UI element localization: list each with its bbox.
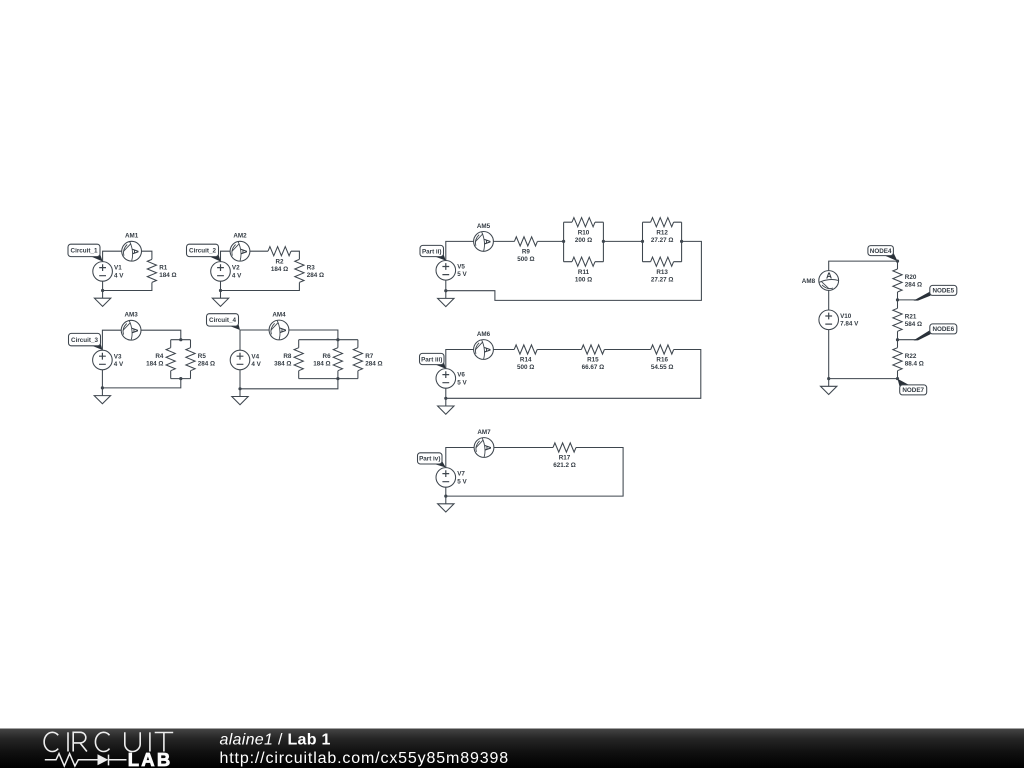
wire R3 bottom to V2 <box>221 283 300 291</box>
svg-text:7.84 V: 7.84 V <box>840 321 859 328</box>
resistor R11 <box>572 257 595 283</box>
svg-text:66.67 Ω: 66.67 Ω <box>582 364 605 371</box>
voltage source V10 <box>819 310 859 330</box>
junction <box>179 377 182 380</box>
svg-text:284 Ω: 284 Ω <box>365 360 382 367</box>
svg-text:R3: R3 <box>307 265 316 272</box>
svg-text:R22: R22 <box>905 353 917 360</box>
resistor R6 <box>313 348 342 371</box>
node NODE4 <box>896 260 899 263</box>
resistor R12 <box>651 218 674 244</box>
junction <box>602 240 605 243</box>
svg-text:R8: R8 <box>283 353 292 360</box>
wire R11 leads <box>564 261 604 263</box>
svg-text:184 Ω: 184 Ω <box>271 266 288 273</box>
node NODE6 <box>896 338 899 341</box>
resistor R17 <box>553 443 576 469</box>
svg-text:AM1: AM1 <box>125 233 139 240</box>
wire block2 side edges <box>643 222 682 262</box>
svg-text:R10: R10 <box>578 229 590 236</box>
wire R15 to R16 <box>604 349 650 351</box>
svg-text:Circuit_2: Circuit_2 <box>189 248 216 255</box>
svg-text:R16: R16 <box>656 357 668 364</box>
svg-text:5 V: 5 V <box>457 271 467 278</box>
node NODE7 <box>896 377 899 380</box>
svg-text:R20: R20 <box>905 274 917 281</box>
wire AM4 to parallel block <box>289 330 338 340</box>
svg-text:5 V: 5 V <box>457 478 467 485</box>
wire parallel top bar <box>171 339 191 341</box>
ammeter AM3 <box>121 312 141 340</box>
wire R21 to R22 <box>897 331 899 347</box>
svg-text:R21: R21 <box>905 313 917 320</box>
wire node5 stub <box>898 299 917 301</box>
svg-text:384 Ω: 384 Ω <box>274 360 291 367</box>
wire R10 leads <box>564 221 604 223</box>
resistor R20 <box>893 269 922 292</box>
wire block bottom to V4 <box>240 379 338 389</box>
svg-text:54.55 Ω: 54.55 Ω <box>651 364 674 371</box>
svg-text:AM2: AM2 <box>233 233 247 240</box>
svg-text:alaine1 / Lab 1: alaine1 / Lab 1 <box>220 731 331 748</box>
resistor R1 <box>147 259 176 282</box>
wire R9 to block1 <box>537 240 563 242</box>
resistor R13 <box>651 257 674 283</box>
wire return loop part ii <box>446 241 702 300</box>
svg-text:NODE4: NODE4 <box>870 248 892 255</box>
voltage source V3 <box>93 350 124 370</box>
resistor R3 <box>295 259 324 282</box>
resistor R9 <box>514 237 537 263</box>
voltage source V7 <box>436 468 467 488</box>
svg-text:27.27 Ω: 27.27 Ω <box>651 237 674 244</box>
junction <box>101 289 104 292</box>
node NODE5 <box>896 298 899 301</box>
voltage source V5 <box>436 261 467 281</box>
svg-text:AM7: AM7 <box>477 429 491 436</box>
svg-text:R12: R12 <box>656 229 668 236</box>
wire R13 leads <box>643 261 682 263</box>
resistor R22 <box>893 348 924 371</box>
svg-text:AM8: AM8 <box>802 278 816 285</box>
logo diode triangle <box>98 754 109 765</box>
svg-text:4 V: 4 V <box>232 272 242 279</box>
ammeter AM5 <box>474 223 494 251</box>
junction <box>238 387 241 390</box>
wire V6 bottom to ground <box>445 388 447 406</box>
wire V1 top to AM1 <box>103 251 122 262</box>
svg-text:R4: R4 <box>155 353 164 360</box>
wire V2 top to AM2 <box>221 251 231 262</box>
ground <box>438 504 454 512</box>
svg-text:NODE7: NODE7 <box>902 387 924 394</box>
wire parallel bottom bar <box>171 378 191 380</box>
svg-text:4 V: 4 V <box>114 361 124 368</box>
ground <box>438 298 454 306</box>
resistor R4 <box>146 348 175 371</box>
node flag Part iv) <box>418 453 446 468</box>
wire V7 bottom to ground <box>445 487 447 504</box>
svg-text:88.4 Ω: 88.4 Ω <box>905 360 924 367</box>
resistor R21 <box>893 308 922 331</box>
wire return loop part iv <box>446 448 623 497</box>
junction <box>219 289 222 292</box>
CircuitLab logo word CIRCUIT <box>44 732 173 751</box>
junction <box>444 397 447 400</box>
wire R2 to R3 <box>291 251 299 259</box>
node flag Circuit_4 <box>207 314 241 330</box>
wire V5 bottom to ground <box>445 280 447 298</box>
wire R1 bottom to V1 <box>103 283 152 291</box>
svg-text:R11: R11 <box>578 269 590 276</box>
voltage source V4 <box>230 350 261 370</box>
resistor R8 <box>274 348 303 371</box>
wire V3 top to AM3 <box>102 330 121 350</box>
wire V1 bottom to ground <box>102 281 104 298</box>
junction <box>101 386 104 389</box>
wire V6 top to AM6 <box>446 350 474 369</box>
node flag Circuit_3 <box>69 333 103 350</box>
ground <box>232 397 248 405</box>
wire V4 top to AM4 <box>240 330 269 350</box>
svg-text:V2: V2 <box>232 265 240 272</box>
wire parallel top bar <box>299 339 358 341</box>
node flag Circuit_2 <box>187 244 221 261</box>
svg-text:184 Ω: 184 Ω <box>313 360 330 367</box>
wire AM3 to parallel block <box>141 330 181 340</box>
svg-text:584 Ω: 584 Ω <box>905 321 922 328</box>
voltage source V2 <box>211 262 242 282</box>
ground <box>94 396 110 404</box>
ammeter AM2 <box>230 233 250 261</box>
wire AM2 to R2 <box>250 250 268 252</box>
voltage source V6 <box>436 369 467 389</box>
node flag NODE4 <box>868 246 898 262</box>
svg-text:NODE5: NODE5 <box>932 288 954 295</box>
node flag NODE6 <box>914 324 957 341</box>
ammeter AM6 <box>474 331 494 359</box>
wire V7 top to AM7 <box>446 448 474 468</box>
wire R5 leads <box>190 340 192 379</box>
svg-text:5 V: 5 V <box>457 379 467 386</box>
junction <box>179 338 182 341</box>
svg-text:V5: V5 <box>457 264 465 271</box>
footer bar <box>0 729 1024 768</box>
svg-text:Part ii): Part ii) <box>422 248 442 255</box>
ammeter AM7 <box>474 429 494 457</box>
ammeter AM1 <box>122 233 142 261</box>
wire V10 bottom to ground <box>828 330 830 387</box>
junction <box>444 289 447 292</box>
svg-text:200 Ω: 200 Ω <box>575 237 592 244</box>
wire R22 bottom to ground rail <box>829 371 898 379</box>
svg-text:AM4: AM4 <box>272 312 286 319</box>
svg-text:http://circuitlab.com/cx55y85m: http://circuitlab.com/cx55y85m89398 <box>220 750 509 767</box>
ground <box>821 386 837 394</box>
wire AM8 to V10 <box>828 290 830 310</box>
wire V2 bottom to ground <box>220 281 222 298</box>
svg-text:284 Ω: 284 Ω <box>905 282 922 289</box>
svg-text:184 Ω: 184 Ω <box>159 272 176 279</box>
svg-text:R17: R17 <box>559 455 571 462</box>
svg-text:Part iii): Part iii) <box>421 356 442 363</box>
svg-text:Part iv): Part iv) <box>419 456 440 463</box>
svg-text:621.2 Ω: 621.2 Ω <box>553 462 576 469</box>
svg-text:R7: R7 <box>365 353 374 360</box>
resistor R16 <box>651 345 674 371</box>
wire AM8 top to node4 <box>829 261 898 271</box>
ground <box>438 406 454 414</box>
svg-text:V6: V6 <box>457 372 465 379</box>
wire AM7 to R17 <box>494 447 553 449</box>
node flag Part ii) <box>420 245 446 260</box>
svg-text:184 Ω: 184 Ω <box>146 360 163 367</box>
wire block1 to block2 <box>603 240 642 242</box>
svg-text:4 V: 4 V <box>114 272 124 279</box>
ammeter AM4 <box>269 312 289 340</box>
svg-text:AM5: AM5 <box>477 223 491 230</box>
svg-text:Circuit_4: Circuit_4 <box>209 317 236 324</box>
junction <box>641 240 644 243</box>
svg-text:4 V: 4 V <box>251 361 261 368</box>
svg-text:AM6: AM6 <box>477 331 491 338</box>
wire R8 leads <box>298 340 300 379</box>
voltage source V1 <box>93 262 124 282</box>
svg-text:LAB: LAB <box>128 749 173 768</box>
wire AM1 to R1 <box>142 251 152 259</box>
svg-text:R15: R15 <box>587 357 599 364</box>
resistor R15 <box>581 345 604 371</box>
logo resistor-diode symbol <box>45 754 127 766</box>
wire R6 leads <box>337 340 339 379</box>
wire return loop part iii <box>446 350 701 399</box>
svg-text:284 Ω: 284 Ω <box>307 272 324 279</box>
wire R20 leads <box>897 261 899 308</box>
svg-text:R1: R1 <box>159 265 168 272</box>
svg-text:R6: R6 <box>323 353 332 360</box>
junction <box>562 240 565 243</box>
svg-text:NODE6: NODE6 <box>932 326 954 333</box>
svg-text:V1: V1 <box>114 265 122 272</box>
wire node6 stub <box>898 339 917 341</box>
svg-text:R9: R9 <box>522 249 531 256</box>
ground <box>212 298 228 306</box>
wire AM6 to R14 <box>493 349 514 351</box>
ammeter AM8 <box>802 270 839 290</box>
svg-text:V10: V10 <box>840 313 852 320</box>
wire block1 side edges <box>564 222 604 262</box>
resistor R5 <box>186 348 215 371</box>
junction <box>680 240 683 243</box>
wire R4 leads <box>170 340 172 379</box>
junction <box>444 495 447 498</box>
junction <box>336 338 339 341</box>
svg-text:284 Ω: 284 Ω <box>198 360 215 367</box>
svg-text:500 Ω: 500 Ω <box>517 364 534 371</box>
svg-text:Circuit_3: Circuit_3 <box>71 337 98 344</box>
svg-text:R2: R2 <box>275 258 284 265</box>
svg-text:27.27 Ω: 27.27 Ω <box>651 276 674 283</box>
wire R7 leads <box>357 340 359 379</box>
junction <box>827 377 830 380</box>
resistor R10 <box>572 218 595 244</box>
wire V4 bottom to ground <box>239 370 241 397</box>
resistor R7 <box>353 348 382 371</box>
resistor R14 <box>514 345 537 371</box>
svg-text:100 Ω: 100 Ω <box>575 276 592 283</box>
svg-text:V3: V3 <box>114 353 122 360</box>
node flag NODE7 <box>898 379 927 395</box>
wire V5 top to AM5 <box>446 241 474 260</box>
svg-text:V4: V4 <box>251 353 259 360</box>
svg-text:R13: R13 <box>656 269 668 276</box>
svg-text:R14: R14 <box>520 357 532 364</box>
svg-text:Circuit_1: Circuit_1 <box>71 248 98 255</box>
wire parallel bottom bar <box>299 378 358 380</box>
wire block bottom to V3 <box>102 379 180 388</box>
svg-text:R5: R5 <box>198 353 207 360</box>
svg-text:500 Ω: 500 Ω <box>517 256 534 263</box>
resistor R2 <box>268 247 291 273</box>
wire V3 bottom to ground <box>101 370 103 396</box>
wire R14 to R15 <box>537 349 581 351</box>
ground <box>94 298 110 306</box>
svg-text:V7: V7 <box>457 471 465 478</box>
junction <box>336 377 339 380</box>
node flag Part iii) <box>420 353 446 368</box>
wire AM5 to R9 <box>493 240 514 242</box>
node flag Circuit_1 <box>68 244 103 261</box>
node flag NODE5 <box>914 285 957 300</box>
svg-text:AM3: AM3 <box>124 312 138 319</box>
wire R12 leads <box>643 221 682 223</box>
